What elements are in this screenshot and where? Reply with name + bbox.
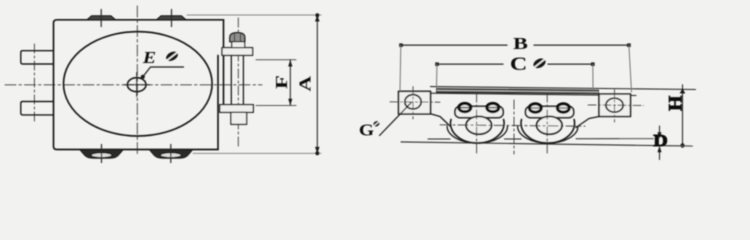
label A	[297, 76, 315, 92]
diameter symbol of E	[165, 50, 180, 63]
dim B extension lines	[400, 45, 632, 92]
svg-text:D: D	[653, 132, 667, 151]
fender arc 2	[518, 126, 578, 143]
bearing block 1	[455, 106, 503, 117]
bearing block 2	[526, 106, 574, 117]
top lug 1	[87, 10, 116, 27]
left tab axis	[33, 44, 35, 122]
screw 2b	[557, 104, 569, 112]
label C	[510, 53, 527, 74]
left end plate hole	[405, 95, 421, 109]
label D	[653, 132, 667, 151]
dim C line	[435, 62, 594, 66]
wheel 2 axis vertical	[546, 93, 548, 156]
horizontal centerline	[5, 84, 262, 86]
bolt axis	[237, 18, 239, 146]
lock nut	[231, 112, 247, 124]
G superscript mark	[372, 120, 380, 128]
label H	[666, 96, 686, 112]
fender arc 1	[447, 126, 507, 143]
lower flange	[220, 105, 254, 113]
bracket body outline	[54, 20, 224, 150]
right end plate hole	[606, 98, 623, 112]
dim D line	[657, 126, 661, 160]
top lug 2	[157, 10, 187, 27]
svg-text:G: G	[359, 121, 374, 140]
label E leader	[141, 67, 184, 79]
hub 2	[537, 116, 562, 134]
rail bar	[436, 88, 599, 94]
screw 2a	[529, 104, 541, 112]
screw 1a	[459, 103, 471, 111]
carriage mid axis	[513, 100, 515, 154]
rail top line	[431, 87, 696, 90]
label B	[513, 34, 528, 53]
rail bottom line	[431, 93, 637, 95]
G leader	[380, 103, 412, 136]
label F	[273, 75, 291, 89]
track line	[401, 142, 692, 146]
diameter symbol of C	[532, 56, 548, 70]
left hole crosshair	[390, 87, 440, 120]
left tab upper	[21, 51, 54, 64]
dim A extension lines	[187, 15, 321, 153]
svg-text:A: A	[297, 76, 315, 92]
label G	[359, 121, 374, 140]
svg-text:H: H	[666, 96, 686, 112]
upper flange	[222, 48, 253, 56]
wheel (large circle, front)	[64, 32, 213, 136]
dim F extension lines	[256, 60, 296, 106]
foot 2	[150, 145, 193, 163]
vertical centerline	[136, 6, 138, 155]
bolt neck	[232, 42, 245, 48]
dim C extension lines	[437, 64, 594, 90]
dim D extension lines	[620, 138, 654, 140]
svg-text:F: F	[273, 75, 291, 89]
right hole crosshair	[588, 90, 644, 123]
left arm gusset	[431, 114, 451, 126]
hub crosshair	[124, 73, 150, 97]
right arm gusset	[576, 117, 599, 128]
svg-text:E: E	[142, 49, 156, 67]
bolt shank	[231, 55, 243, 104]
adjuster bolt head	[230, 33, 245, 42]
dim H line	[673, 85, 693, 148]
left end plate	[399, 91, 431, 114]
svg-text:B: B	[513, 34, 528, 53]
dim B line	[399, 43, 630, 47]
wheel 2 (side)	[521, 120, 575, 144]
wheel 1 (side)	[451, 120, 505, 144]
hub bore E	[127, 78, 146, 92]
dim F line	[288, 60, 292, 106]
label E	[142, 49, 156, 67]
dim A line	[315, 13, 320, 155]
wheel axle horizontal axis	[440, 125, 585, 126]
hub 1	[466, 116, 491, 134]
screw 1b	[487, 103, 499, 111]
foot 1	[80, 145, 123, 163]
plate bottom edge line	[428, 138, 654, 140]
svg-text:C: C	[510, 53, 527, 74]
wheel 1 axis vertical	[476, 93, 478, 156]
left tab lower	[21, 102, 54, 115]
right end plate	[599, 94, 631, 117]
